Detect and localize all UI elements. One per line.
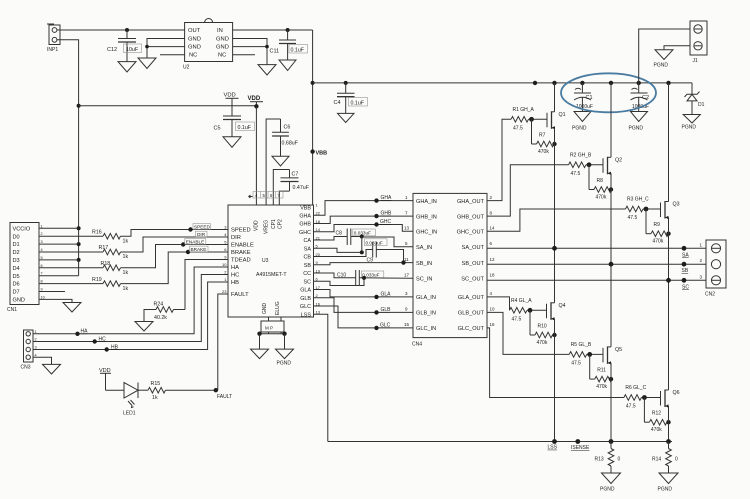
svg-text:1k: 1k [123, 254, 129, 260]
wire C8 to SA [351, 236, 362, 238]
svg-text:R5 GL_B: R5 GL_B [571, 342, 592, 348]
svg-text:15: 15 [404, 322, 410, 327]
capacitor C11 [270, 30, 308, 60]
svg-text:4: 4 [41, 248, 43, 252]
node C11 tap [286, 28, 290, 32]
svg-text:Q5: Q5 [615, 347, 622, 353]
node gate Q1 [529, 117, 534, 122]
transistor Q4 [547, 302, 566, 320]
svg-text:R14: R14 [652, 457, 661, 463]
svg-text:M P: M P [265, 326, 273, 331]
node HA [75, 332, 79, 336]
node GLB [374, 310, 378, 314]
svg-text:16: 16 [490, 322, 496, 327]
svg-text:R16: R16 [92, 229, 102, 235]
wire VCCIO row [39, 227, 79, 229]
svg-text:R18: R18 [101, 261, 111, 267]
wire D3 row [39, 259, 79, 261]
node SB label [682, 262, 687, 267]
svg-text:SA: SA [682, 252, 689, 258]
svg-text:R8: R8 [597, 178, 604, 184]
ground below R24 [135, 322, 153, 332]
wire GLB_OUT to R5 [487, 312, 569, 354]
capacitor C2 electrolytic [631, 83, 650, 112]
svg-text:CA: CA [304, 238, 312, 244]
wire GHB_OUT to R2 [487, 165, 569, 216]
svg-text:ISENSE: ISENSE [571, 445, 590, 451]
node R7 source join [552, 142, 556, 146]
svg-text:C5: C5 [214, 126, 221, 132]
power VDD for LED [99, 368, 111, 390]
svg-text:SA_OUT: SA_OUT [462, 245, 485, 251]
wire HB [33, 282, 228, 350]
svg-text:CB: CB [304, 255, 312, 261]
node SC C10 join [362, 276, 366, 280]
svg-text:GHB: GHB [381, 211, 393, 217]
net BRAKE label [190, 246, 209, 252]
wire LSS bottom rail [328, 441, 672, 443]
svg-text:ENABLE: ENABLE [231, 243, 254, 249]
resistor R2 47.5 [569, 153, 593, 177]
svg-text:LSS: LSS [301, 312, 312, 318]
wire D2 row [39, 251, 103, 253]
svg-text:47.5: 47.5 [628, 215, 638, 221]
wire Q6 drain from SC [668, 280, 670, 390]
svg-text:D1: D1 [698, 102, 705, 108]
svg-text:470k: 470k [651, 427, 662, 433]
node R8 source join [609, 187, 613, 191]
svg-text:GHA: GHA [299, 213, 311, 219]
wire SA net [314, 248, 362, 252]
transistor Q2 [603, 157, 622, 175]
svg-text:OUT: OUT [188, 28, 201, 34]
capacitor C12 [107, 30, 142, 62]
wire INP1 pin1 to U2 OUT [57, 29, 185, 31]
svg-text:A4915MET-T: A4915MET-T [256, 272, 287, 278]
svg-text:PGND: PGND [277, 361, 292, 367]
wire D0 row [39, 235, 103, 237]
wire VBB drop from top [312, 30, 314, 205]
svg-text:GLA_OUT: GLA_OUT [458, 295, 485, 301]
svg-text:INP1: INP1 [47, 47, 58, 53]
wire pad to grounds [260, 333, 285, 335]
svg-text:18: 18 [490, 273, 496, 278]
svg-text:GLB: GLB [300, 296, 311, 302]
svg-text:BRAKE: BRAKE [191, 247, 207, 252]
svg-text:GND: GND [13, 298, 25, 304]
svg-text:0.1uF: 0.1uF [238, 125, 252, 131]
ground PGND below R13 [602, 473, 621, 484]
net SPEED label [193, 224, 211, 230]
resistor R7 470k [532, 119, 555, 155]
ground PGND below R14 [659, 473, 678, 484]
capacitor C5 [214, 106, 255, 137]
wire Q6 source to LSS [668, 406, 670, 442]
node C1 tap [580, 81, 584, 85]
node SA C8 join [360, 250, 364, 254]
capacitor C6 [272, 119, 299, 156]
svg-text:FAULT: FAULT [217, 394, 232, 400]
pin number strip above U3 [249, 192, 284, 199]
svg-text:GND: GND [262, 303, 268, 315]
ground PGND below J1 [655, 50, 673, 60]
wire R16 to SPEED [121, 230, 229, 237]
ground below pad left [251, 349, 269, 359]
svg-text:CP2: CP2 [278, 219, 284, 229]
net ENABLE label [185, 239, 206, 245]
node GLA [374, 295, 378, 299]
svg-text:GLC_OUT: GLC_OUT [458, 326, 485, 332]
svg-text:U3: U3 [262, 258, 269, 264]
ground PGND below D1 [683, 115, 700, 124]
resistor R8 470k [589, 165, 612, 201]
wire GLC_OUT to R6 [487, 328, 624, 398]
svg-text:0.033uF: 0.033uF [366, 240, 383, 245]
power VDD symbol left [224, 93, 239, 106]
node R12 source join [666, 420, 670, 424]
svg-text:ENABLE: ENABLE [186, 239, 205, 244]
wire CN3 pin4 to ground [33, 357, 52, 364]
svg-text:0.1uF: 0.1uF [291, 47, 305, 53]
svg-text:SB_OUT: SB_OUT [462, 261, 485, 267]
svg-text:Q2: Q2 [615, 157, 622, 163]
svg-text:23: 23 [222, 289, 227, 294]
svg-text:HC: HC [231, 273, 239, 279]
wire D7 stub [39, 291, 65, 293]
svg-text:D5: D5 [13, 274, 20, 280]
wire GHC net [314, 225, 414, 232]
node HB [105, 347, 109, 351]
node C12 top junction [125, 28, 129, 32]
svg-text:D6: D6 [13, 282, 20, 288]
wire D6 row [39, 283, 103, 285]
svg-text:10: 10 [490, 307, 496, 312]
wire D4 row [39, 267, 103, 269]
ground right of U2 [258, 65, 276, 75]
wire U2 right NC stub [233, 54, 255, 56]
svg-text:SC: SC [682, 284, 689, 290]
svg-text:GLB_IN: GLB_IN [416, 311, 436, 317]
svg-text:C1: C1 [586, 95, 593, 101]
resistor R12 470k [644, 398, 668, 434]
wire VDD down to IC pin [255, 106, 257, 205]
svg-text:1k: 1k [123, 270, 129, 276]
node R9 source join [666, 232, 670, 236]
svg-text:R17: R17 [99, 245, 109, 251]
wire Q3 drain [668, 83, 670, 202]
resistor R15 1k [148, 381, 165, 401]
svg-text:1k: 1k [152, 395, 158, 401]
ground PGND below pad right [276, 349, 294, 359]
node VBB rail junction [311, 81, 315, 85]
svg-text:R9: R9 [654, 222, 661, 228]
node VDD rail tap [77, 104, 81, 108]
wire CC to C10 [314, 273, 356, 278]
svg-text:R12: R12 [652, 411, 661, 417]
wire INP1 pin2 down left rail [57, 40, 79, 276]
wire VREG bracket [266, 119, 280, 205]
svg-text:C10: C10 [337, 272, 346, 278]
ground below C12 [118, 62, 136, 72]
power VDD symbol at IC feed [248, 96, 264, 106]
wire U2 left GND pins [147, 39, 185, 59]
node gate Q2 [587, 162, 592, 167]
wire R1 to gate [529, 118, 548, 120]
node ENABLE [181, 242, 185, 246]
wire C10 to CN4 [359, 277, 413, 279]
node Q4 source join [552, 439, 557, 444]
svg-text:CN2: CN2 [705, 292, 715, 298]
svg-text:47.5: 47.5 [571, 360, 581, 366]
svg-text:GHA: GHA [381, 195, 393, 201]
svg-text:1: 1 [41, 224, 43, 228]
svg-text:GND: GND [216, 45, 229, 51]
svg-text:11: 11 [404, 257, 409, 262]
ground PGND below C1 [574, 112, 591, 122]
wire R3 to gate [643, 208, 661, 210]
wire GHB net [314, 216, 414, 223]
svg-text:BRAKE: BRAKE [231, 250, 251, 256]
svg-text:40.2k: 40.2k [154, 315, 167, 321]
node gate Q4 [528, 308, 533, 313]
svg-text:SB_IN: SB_IN [416, 261, 432, 267]
svg-text:Q4: Q4 [559, 303, 566, 309]
svg-text:0.1uF: 0.1uF [351, 100, 365, 106]
svg-text:GLC: GLC [380, 323, 391, 329]
transistor Q3 [661, 201, 680, 219]
wire SB phase row [487, 263, 706, 265]
svg-text:2: 2 [41, 232, 43, 236]
transistor Q5 [603, 346, 622, 364]
wire R19 to BRAKE [121, 252, 229, 284]
wire VDD horizontal rail [79, 105, 257, 107]
node GHB [374, 214, 378, 218]
wire GHA net [314, 201, 414, 216]
svg-text:HB: HB [111, 344, 119, 350]
svg-text:D2: D2 [13, 250, 20, 256]
svg-text:FAULT: FAULT [231, 292, 249, 298]
svg-text:SA: SA [304, 246, 312, 252]
svg-text:GHA_OUT: GHA_OUT [457, 199, 485, 205]
svg-text:SC_IN: SC_IN [416, 277, 432, 283]
svg-text:Q3: Q3 [673, 202, 680, 208]
wire LED cathode to R15 [138, 389, 148, 391]
svg-text:GLC_IN: GLC_IN [416, 326, 436, 332]
wire GHA_OUT to R1 [487, 119, 511, 200]
svg-text:0.68uF: 0.68uF [282, 141, 299, 147]
wire SA phase row [487, 247, 706, 249]
svg-text:R15: R15 [151, 381, 161, 387]
svg-text:VDD: VDD [224, 93, 236, 99]
svg-text:D7: D7 [13, 290, 20, 296]
svg-text:GLC: GLC [300, 304, 311, 310]
wire U2 IN to VBB corner [233, 29, 313, 31]
node VDD feed junction [254, 104, 258, 108]
wire FAULT drop from IC [218, 294, 228, 390]
node R11 source join [609, 377, 613, 381]
node gate Q5 [587, 352, 592, 357]
svg-text:R7: R7 [539, 132, 546, 138]
wire R18 to ENABLE [121, 245, 229, 268]
svg-text:SA_IN: SA_IN [416, 245, 432, 251]
svg-text:5: 5 [41, 256, 43, 260]
svg-text:R6 GL_C: R6 GL_C [625, 385, 646, 391]
svg-text:9: 9 [41, 288, 43, 292]
svg-text:VDD: VDD [254, 220, 260, 231]
resistor R11 470k [590, 354, 613, 390]
svg-text:470k: 470k [596, 194, 607, 200]
node R13 join [609, 439, 614, 444]
svg-text:47.5: 47.5 [513, 125, 523, 131]
wire U2 right GND pins [233, 39, 267, 65]
svg-text:GND: GND [188, 45, 201, 51]
wire CP1 bracket [273, 170, 289, 206]
svg-text:R2 GH_B: R2 GH_B [570, 153, 592, 159]
svg-text:NC: NC [189, 53, 197, 59]
node Q3 drain tap [666, 81, 670, 85]
connector CN1 [7, 223, 45, 314]
svg-text:HA: HA [231, 265, 239, 271]
node SA label [682, 246, 687, 251]
resistor R14 0 [652, 442, 678, 474]
transistor Q1 [547, 111, 566, 129]
wire CN1 GND [39, 299, 72, 302]
wire Q4 source to LSS [554, 319, 556, 442]
resistor R17 1k [99, 245, 129, 260]
resistor R24 40.2k [144, 301, 185, 321]
capacitor C7 [281, 170, 310, 192]
node GHC [374, 222, 378, 226]
svg-text:C8: C8 [336, 230, 343, 236]
svg-text:R3 GH_C: R3 GH_C [627, 197, 649, 203]
resistor R19 1k [92, 277, 128, 292]
ground below C11 [279, 60, 296, 71]
transistor Q6 [661, 390, 680, 408]
resistor R4 47.5 [510, 298, 533, 322]
node BRAKE [186, 250, 190, 254]
wire R4 to gate [527, 309, 547, 311]
node VBB label junction [310, 149, 314, 153]
wire Q5 source to LSS [610, 363, 612, 442]
connector J1 [690, 21, 707, 64]
svg-text:PGND: PGND [682, 125, 697, 131]
wire TDEAD to R24 [185, 260, 228, 310]
svg-text:VREG: VREG [264, 220, 270, 234]
svg-text:GLB: GLB [381, 307, 392, 313]
node GLC [374, 326, 378, 330]
svg-text:8: 8 [41, 280, 43, 284]
svg-text:VBB: VBB [316, 151, 328, 157]
svg-text:10: 10 [41, 295, 45, 299]
svg-text:DIR: DIR [231, 235, 241, 241]
wire VDD to LED anode [106, 389, 125, 391]
svg-text:CP1: CP1 [271, 219, 277, 229]
svg-text:47.5: 47.5 [571, 171, 581, 177]
wire Q3 source to SC [668, 218, 670, 281]
wire R6 to gate [641, 397, 660, 399]
svg-text:GHB_OUT: GHB_OUT [457, 214, 485, 220]
wire HC [33, 275, 228, 342]
node VCCIO tap [77, 226, 81, 230]
svg-text:Q1: Q1 [559, 112, 566, 118]
svg-text:SPEED: SPEED [231, 228, 251, 234]
svg-text:D0: D0 [13, 234, 20, 240]
svg-text:PGND: PGND [654, 63, 669, 69]
svg-text:NC: NC [218, 53, 226, 59]
wire SC phase row [487, 279, 706, 281]
svg-text:U2: U2 [183, 65, 190, 71]
wire C9 to SB [376, 250, 403, 263]
wire U2 left NC stub [160, 54, 185, 56]
svg-text:D4: D4 [13, 266, 20, 272]
resistor R13 0 [595, 442, 621, 474]
svg-text:GLB_OUT: GLB_OUT [458, 311, 485, 317]
wire CB to C9 [314, 250, 373, 257]
svg-text:LED1: LED1 [123, 411, 136, 417]
svg-text:D1: D1 [13, 242, 20, 248]
wire D5 row [39, 275, 79, 277]
highlight ellipse around C1 C2 [561, 73, 656, 112]
svg-text:R4 GL_A: R4 GL_A [511, 298, 532, 304]
svg-text:13: 13 [404, 226, 410, 231]
svg-text:17: 17 [404, 273, 410, 278]
svg-text:6: 6 [41, 264, 43, 268]
ground below C4 [338, 113, 355, 122]
regulator U2 [183, 19, 233, 71]
wire GLB net [314, 298, 414, 313]
svg-text:10uF: 10uF [126, 47, 139, 53]
wire R5 to gate [587, 353, 603, 355]
node Q1 drain tap [552, 81, 556, 85]
svg-text:GHA_IN: GHA_IN [416, 199, 437, 205]
svg-text:C2: C2 [642, 95, 649, 101]
resistor R10 470k [530, 310, 555, 346]
capacitor C1 electrolytic [574, 83, 593, 112]
svg-text:VCCIO: VCCIO [13, 226, 31, 232]
svg-text:470k: 470k [537, 340, 548, 346]
svg-text:CN3: CN3 [21, 365, 31, 371]
node FAULT [214, 388, 218, 392]
svg-text:ELUG: ELUG [275, 301, 281, 315]
svg-text:47.5: 47.5 [512, 316, 522, 322]
node gate Q3 [644, 207, 649, 212]
ground left of U2 [138, 58, 156, 69]
wire Q2 source to SB [610, 173, 612, 264]
wire GHC_OUT to R3 [487, 209, 626, 231]
svg-text:VBB: VBB [300, 206, 311, 212]
LED LED1 [123, 383, 138, 417]
resistor R3 47.5 [626, 197, 650, 221]
svg-text:R10: R10 [538, 323, 547, 329]
net DIR label [196, 231, 208, 237]
svg-text:GND: GND [216, 37, 229, 43]
svg-text:C6: C6 [284, 125, 291, 131]
svg-text:0: 0 [675, 457, 678, 463]
node Q2 drain tap [609, 81, 613, 85]
svg-text:GHC: GHC [299, 230, 311, 236]
node HC [93, 339, 97, 343]
svg-text:PGND: PGND [629, 126, 644, 132]
node ISENSE [575, 439, 580, 444]
svg-text:470k: 470k [538, 149, 549, 155]
capacitor C9 0.033uF [365, 239, 388, 264]
thermal pad box below U3 [261, 317, 284, 332]
capacitor C4 [334, 83, 368, 114]
wire CP2 return [279, 191, 289, 205]
svg-text:HC: HC [99, 336, 107, 342]
wire Q4 drain from SA [554, 248, 556, 302]
svg-text:Q6: Q6 [673, 390, 680, 396]
